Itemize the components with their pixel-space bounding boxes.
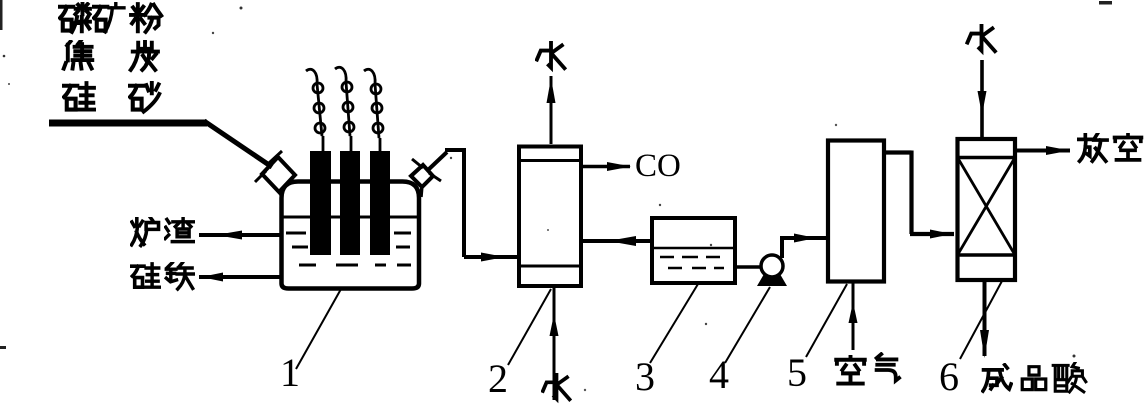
svg-text:3: 3 bbox=[635, 354, 655, 399]
svg-text:1: 1 bbox=[280, 350, 300, 395]
svg-text:5: 5 bbox=[787, 350, 807, 395]
svg-text:2: 2 bbox=[488, 356, 508, 401]
svg-text:4: 4 bbox=[709, 352, 729, 397]
svg-text:CO: CO bbox=[635, 148, 681, 184]
svg-text:6: 6 bbox=[939, 354, 959, 399]
